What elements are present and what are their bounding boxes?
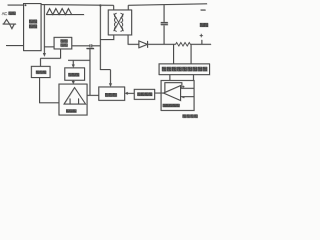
- wire oscillator to comparator (arrow): [72, 80, 74, 81]
- output terminal tick: [201, 40, 203, 45]
- label AC input text: [2, 11, 8, 16]
- wire node A horizontal: [40, 57, 60, 59]
- wire AC bottom lead: [6, 45, 24, 47]
- optocoupler box: [134, 89, 154, 99]
- transistor Q1 source lead down: [89, 49, 91, 96]
- resistor R1 zigzag: [176, 42, 191, 46]
- wire DC bus rail (left): [41, 4, 114, 7]
- wire optocoupler to driver (arrow): [128, 92, 135, 94]
- wire secondary bottom to diode: [128, 35, 139, 44]
- wire node A down to reference box: [39, 58, 41, 66]
- wire AC top lead: [8, 4, 24, 6]
- wire feedback tap 1: [173, 44, 175, 64]
- wire arrow into driver box: [109, 70, 111, 84]
- wire supply tap to PWM box left: [44, 46, 54, 48]
- output terminal dash: [201, 9, 206, 11]
- wire error amp to optocoupler: [155, 92, 164, 94]
- transformer secondary top lead: [127, 5, 129, 10]
- wire reference box to comparator: [40, 78, 59, 103]
- wire supply drop to node A (with arrow): [43, 5, 45, 54]
- op-amp input leads: [181, 88, 195, 96]
- op-amp U4 triangle (pointing left): [163, 86, 180, 101]
- op-amp +/- marks: [182, 86, 184, 98]
- error amplifier box U4: [161, 80, 194, 110]
- wire box3 to error amp leads: [170, 75, 194, 81]
- transistor Q1 channel bar: [86, 48, 94, 50]
- diode D1: [139, 41, 148, 48]
- label error amp: [163, 104, 166, 107]
- capacitor C1 plates: [161, 22, 168, 25]
- output plus mark: [200, 34, 203, 37]
- transistor Q1 drain segment: [92, 44, 101, 47]
- wire rail (right): [128, 4, 207, 5]
- wire arrow into oscillator box: [72, 60, 74, 64]
- sawtooth waveform annotation: [46, 9, 84, 15]
- capacitor C1 top lead: [163, 4, 165, 22]
- AC source sine symbol: [3, 19, 17, 28]
- wire comparator to driver: [87, 94, 99, 96]
- wire node A to box PWM bottom: [60, 49, 62, 58]
- wire drain vertical: [100, 5, 110, 69]
- wire source sense branch: [68, 59, 90, 61]
- transformer primary top lead: [113, 5, 115, 10]
- driver box: [99, 87, 125, 100]
- op-amp triangle (pointing up): [64, 88, 86, 105]
- amplifier-filter box: [159, 64, 210, 75]
- transformer windings: [114, 13, 116, 31]
- label output: [200, 23, 203, 26]
- reference box: [31, 66, 50, 77]
- input stubs: [70, 98, 79, 104]
- rectifier-filter box U1: [24, 4, 42, 51]
- PWM control box U2: [54, 37, 72, 49]
- feedback loop wire: [165, 83, 182, 93]
- capacitor C1 bottom lead: [163, 25, 165, 44]
- node junction dot on rail: [99, 4, 101, 6]
- transformer T1 box: [108, 10, 131, 35]
- wire output rail: [148, 43, 212, 45]
- oscillator box: [65, 68, 85, 80]
- wire gate drive: [72, 44, 90, 47]
- label reference voltage: [183, 115, 186, 118]
- comparator box U3: [59, 84, 87, 115]
- wire feedback tap 2: [190, 44, 192, 64]
- wire primary bottom to drain rail: [100, 35, 113, 40]
